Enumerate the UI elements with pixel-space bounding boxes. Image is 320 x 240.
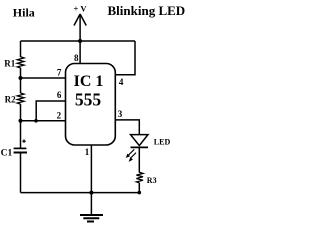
svg-text:R1: R1	[4, 58, 15, 68]
svg-text:6: 6	[57, 90, 62, 100]
wire: LED cathode to R3	[138, 147, 140, 172]
node: R3 corner dot	[138, 191, 142, 195]
ground	[80, 193, 103, 222]
wire: pin 1 from IC bottom to rail	[90, 145, 92, 193]
svg-text:IC 1: IC 1	[74, 73, 104, 90]
wire: below R2 down to C1	[20, 104, 22, 148]
wire: pin 8 drop from rail to IC top	[79, 41, 81, 64]
svg-text:Hila: Hila	[13, 5, 35, 19]
capacitor C1	[14, 148, 27, 152]
wire: bottom horizontal rail	[21, 192, 140, 194]
svg-text:555: 555	[75, 90, 102, 110]
svg-text:8: 8	[74, 53, 79, 63]
op-amp: IC1 555 timer box	[66, 64, 116, 146]
resistor R2	[17, 93, 24, 104]
resistor R3	[136, 172, 143, 183]
LED D1	[131, 135, 149, 148]
resistor R1	[17, 57, 24, 68]
LED emission arrows	[126, 149, 136, 162]
wire: pin 7 to IC	[21, 77, 66, 79]
svg-text:R2: R2	[5, 94, 16, 104]
wire: pin 6 loop to pin 2	[36, 101, 65, 121]
svg-text:1: 1	[85, 147, 90, 157]
wire: below C1 to bottom rail	[20, 153, 22, 193]
svg-text:Blinking LED: Blinking LED	[108, 3, 186, 18]
node: pin6 loop junction dot	[34, 119, 38, 123]
svg-text:LED: LED	[154, 137, 171, 146]
svg-text:7: 7	[57, 68, 62, 78]
wire: left vertical rail upper segment	[20, 41, 22, 57]
wire: R3 to bottom rail	[138, 183, 140, 193]
wire: right vertical from rail down to pin 4	[115, 41, 135, 75]
node: pin1 bottom junction dot	[89, 191, 93, 195]
wire: top horizontal rail	[21, 40, 136, 42]
wire: pin 2 to IC	[21, 120, 66, 122]
svg-text:R3: R3	[147, 176, 157, 185]
svg-text:3: 3	[118, 109, 123, 119]
+V supply arrow	[74, 14, 86, 41]
node: +V junction dot	[78, 39, 82, 43]
svg-text:+ V: + V	[74, 4, 88, 14]
node: pin2 junction dot	[19, 119, 23, 123]
wire: pin 3 out to LED branch	[115, 120, 139, 135]
svg-text:2: 2	[57, 111, 62, 121]
svg-text:C1: C1	[1, 149, 13, 159]
node: pin7 junction dot	[19, 76, 23, 80]
wire: between R1 and R2	[20, 68, 22, 93]
svg-text:4: 4	[119, 77, 124, 87]
